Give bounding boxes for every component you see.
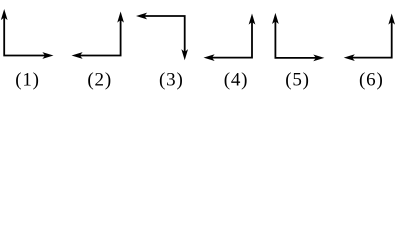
- arrowhead right: [44, 53, 53, 58]
- wire: [143, 16, 185, 54]
- wire: [350, 20, 392, 58]
- svg-text:(6): (6): [359, 69, 384, 90]
- wire: [4, 15, 47, 56]
- wire: [275, 19, 318, 58]
- arrowhead right: [314, 55, 323, 60]
- arrowhead left: [205, 55, 214, 60]
- wire: [78, 18, 121, 56]
- arrowhead up: [249, 15, 254, 24]
- svg-text:(2): (2): [87, 69, 112, 90]
- arrowhead up: [389, 15, 394, 24]
- svg-text:(4): (4): [224, 69, 249, 90]
- arrowhead up: [118, 13, 123, 22]
- svg-text:(3): (3): [159, 69, 184, 90]
- arrowhead down: [182, 50, 187, 59]
- svg-text:(1): (1): [15, 69, 40, 90]
- arrowhead left: [137, 13, 146, 18]
- wire: [210, 20, 252, 58]
- arrowhead left: [345, 55, 354, 60]
- svg-text:(5): (5): [285, 69, 310, 90]
- arrowhead left: [73, 53, 82, 58]
- arrowhead up: [2, 10, 7, 19]
- arrowhead up: [273, 14, 278, 23]
